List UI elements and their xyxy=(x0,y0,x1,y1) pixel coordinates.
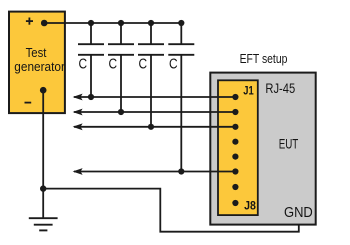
svg-text:C: C xyxy=(109,56,118,72)
svg-text:Test: Test xyxy=(26,46,47,60)
junction node line2/C2 xyxy=(118,109,124,115)
pin 7 xyxy=(232,184,238,190)
test generator box xyxy=(9,12,65,114)
wire: line to pin 3 xyxy=(74,126,235,128)
pin 8 xyxy=(232,200,238,206)
capacitor C2 xyxy=(108,23,134,112)
arrowhead line 4 xyxy=(73,168,83,175)
RJ-45 connector box xyxy=(218,80,258,215)
wire: minus terminal down xyxy=(42,90,44,188)
wire: ground return to EUT GND xyxy=(43,189,299,232)
junction node line3/C3 xyxy=(148,124,154,130)
svg-text:J1: J1 xyxy=(243,83,254,97)
junction node cap3 top xyxy=(148,20,154,26)
svg-text:EUT: EUT xyxy=(279,136,299,152)
svg-text:C: C xyxy=(139,56,148,72)
pin 2 xyxy=(232,109,238,115)
junction node cap1 top xyxy=(88,20,94,26)
svg-text:J8: J8 xyxy=(244,199,256,213)
plus terminal node xyxy=(41,20,48,27)
capacitor C3 xyxy=(138,23,164,127)
arrowhead line 2 xyxy=(73,109,83,116)
ground xyxy=(29,189,58,231)
svg-text:EFT setup: EFT setup xyxy=(240,52,288,66)
pin 4 xyxy=(232,139,238,145)
svg-text:generator: generator xyxy=(14,60,65,74)
pin 3 xyxy=(232,124,238,130)
plus terminal label xyxy=(26,18,33,25)
wire: top bus from plus terminal xyxy=(44,22,181,24)
wire: line to pin 2 xyxy=(74,111,235,113)
junction node line4/C4 xyxy=(178,168,184,174)
svg-text:GND: GND xyxy=(284,205,313,221)
svg-text:C: C xyxy=(79,56,88,72)
junction node cap4 top xyxy=(178,20,184,26)
minus terminal label xyxy=(25,102,32,104)
wire: line to pin J1 xyxy=(74,96,235,98)
svg-text:C: C xyxy=(169,56,178,72)
junction node line1/C1 xyxy=(88,94,94,100)
svg-text:RJ-45: RJ-45 xyxy=(265,81,295,96)
wire: line to pin 6 xyxy=(74,171,235,173)
capacitor C1 xyxy=(78,23,104,97)
minus terminal node xyxy=(40,87,47,94)
junction node cap2 top xyxy=(118,20,124,26)
pin 6 xyxy=(232,168,238,174)
arrowhead line 3 xyxy=(73,123,83,130)
capacitor C4 xyxy=(168,23,194,172)
EUT box xyxy=(210,73,315,225)
junction node ground xyxy=(40,185,46,191)
pin 5 xyxy=(232,154,238,160)
arrowhead line 1 xyxy=(73,94,83,101)
pin J1 xyxy=(232,94,238,100)
